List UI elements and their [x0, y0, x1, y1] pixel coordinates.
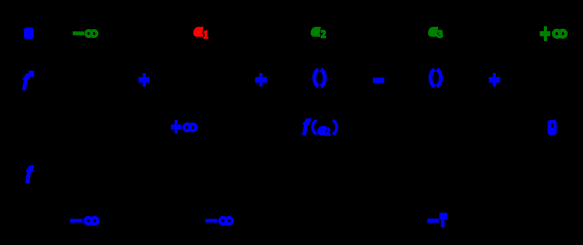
- node -infinity (green, header): [73, 31, 97, 37]
- node a3 (green, header): [429, 23, 443, 41]
- value -7 (blue, bottom right): [427, 213, 447, 228]
- zero (parenthesis-like) at a3 (blue): [430, 69, 440, 86]
- svg-text:2: 2: [321, 30, 326, 41]
- plus sign 3 (blue): [489, 73, 500, 87]
- svg-text:a: a: [429, 23, 437, 40]
- plus sign 2 (blue): [255, 73, 267, 87]
- svg-text:3: 3: [438, 30, 443, 41]
- svg-text:a: a: [194, 23, 202, 40]
- node a1 (red, header): [194, 23, 208, 42]
- value -infinity (blue, bottom left): [70, 218, 98, 224]
- node a2 (green, header): [312, 23, 326, 41]
- node +infinity (green, header): [540, 26, 566, 41]
- minus sign (blue): [373, 78, 384, 83]
- label f (row 3, blue): [26, 162, 34, 182]
- value +infinity (blue, row 3 upper): [171, 120, 196, 134]
- plus sign 1 (blue): [139, 73, 150, 87]
- value f(a2) (blue, row 3): [303, 116, 337, 138]
- zero (parenthesis-like) at a2 (blue): [314, 69, 325, 86]
- node x (header variable, blue): [24, 27, 34, 39]
- svg-text:2: 2: [325, 127, 330, 138]
- svg-text:a: a: [312, 23, 320, 40]
- svg-text:1: 1: [203, 30, 208, 41]
- label f' (row 2, blue): [23, 71, 34, 91]
- value 0 (blue, row 3 right): [548, 120, 557, 135]
- value -infinity (blue, bottom middle): [205, 218, 232, 224]
